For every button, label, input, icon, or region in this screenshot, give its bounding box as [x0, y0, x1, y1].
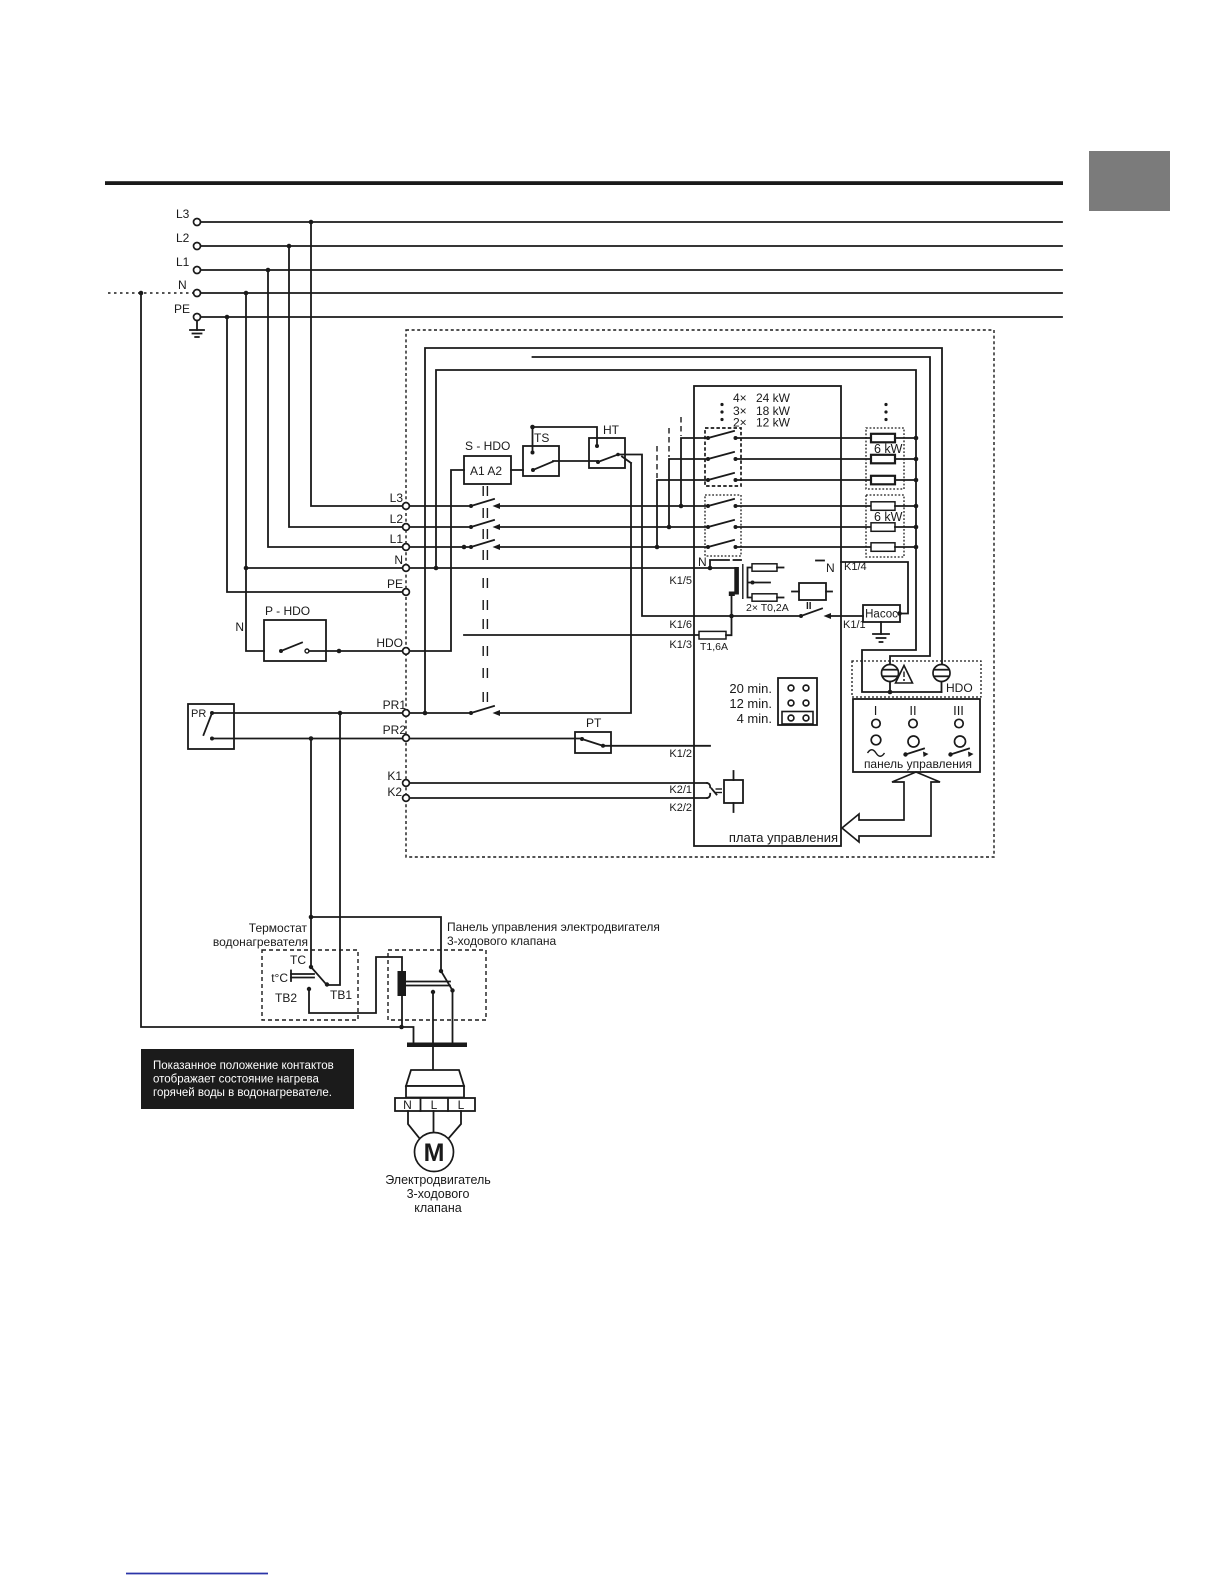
contactor S-HDO linkage dashes: [483, 486, 487, 702]
node N supply terminal: [178, 278, 201, 297]
wire group1 feed from L3: [681, 417, 708, 506]
motor M: [415, 1133, 454, 1172]
svg-text:K1/5: K1/5: [669, 575, 692, 587]
wire L2 supply line: [201, 244, 1062, 249]
svg-text:Насос: Насос: [865, 609, 898, 621]
resistor R3 heater: [871, 476, 895, 485]
node L2 supply terminal: [176, 231, 201, 250]
label motor title: [385, 1173, 491, 1215]
relay contact K 1a: [706, 431, 738, 440]
wire PE drop to inner PE: [227, 317, 402, 592]
wire contact2b to heater R5: [736, 526, 872, 528]
node PE inner terminal: [387, 577, 409, 595]
svg-text:I: I: [874, 703, 878, 718]
resistor R1 heater: [871, 434, 895, 443]
wire contact1c to heater R3: [736, 479, 872, 481]
wire terminals to motor: [408, 1111, 461, 1139]
wire TS top link to HT top: [530, 425, 597, 446]
wire A2 to TS: [511, 469, 523, 471]
contactor S-HDO pole 2: [469, 520, 500, 530]
sensor t°C: [271, 971, 314, 986]
node HDO inner terminal: [376, 636, 409, 654]
valve gearbox housing: [406, 1070, 464, 1098]
relay K2 contact and equals: [712, 789, 723, 795]
thermostat dashed box: [262, 950, 358, 1020]
node N bracket at K1/5: [698, 555, 741, 570]
svg-text:K2/2: K2/2: [669, 802, 692, 814]
panel lamp III: [955, 719, 963, 727]
svg-text:3-ходового: 3-ходового: [407, 1187, 470, 1201]
node PE supply terminal: [174, 302, 201, 321]
node L3 inner terminal: [390, 491, 410, 509]
svg-text:12 kW: 12 kW: [756, 416, 791, 430]
wire contact2c to heater R6: [736, 546, 872, 548]
relay contact K 2c: [706, 540, 738, 549]
heater group 2 dotted box 6 kW: [866, 495, 904, 557]
node TB2 wire: [275, 957, 402, 1013]
svg-text:TB1: TB1: [330, 988, 352, 1002]
svg-text:водонагревателя: водонагревателя: [213, 935, 308, 949]
motor panel dashed box: [388, 950, 486, 1020]
wire HDO to A1: [410, 470, 465, 651]
wire loop A PR1 to HDO lamp: [423, 348, 942, 715]
wire PR2 riser to TC: [309, 739, 314, 968]
relay contact group 2 box: [705, 495, 741, 556]
svg-text:T1,6A: T1,6A: [700, 641, 728, 653]
wire L1 supply line: [201, 268, 1062, 273]
relay K2 coil box: [724, 771, 743, 812]
relay contact K 2a: [706, 499, 738, 508]
svg-text:Электродвигатель: Электродвигатель: [385, 1173, 491, 1187]
block arrow board to panel: [842, 772, 940, 842]
wire heater returns to N loop: [895, 436, 918, 550]
node L1 supply terminal: [176, 255, 201, 274]
resistor R6 heater: [871, 543, 895, 552]
fuse F2 T0,2A: [746, 594, 789, 614]
motor panel switch: [431, 969, 455, 994]
switch PR1 contact: [469, 706, 500, 716]
switch II pump contact: [799, 601, 866, 631]
svg-text:L3: L3: [390, 491, 404, 505]
contactor S-HDO pole 1: [469, 499, 500, 509]
receiver PR box: [188, 704, 234, 749]
svg-text:A1 A2: A1 A2: [470, 464, 502, 478]
wire PT to K1/2: [605, 746, 710, 760]
svg-text:3-ходового клапана: 3-ходового клапана: [447, 934, 557, 948]
outer dashed enclosure box: [406, 330, 994, 857]
wire contact2a to heater R4: [736, 505, 872, 507]
svg-text:отображает состояние нагрева: отображает состояние нагрева: [153, 1074, 319, 1086]
svg-text:M: M: [424, 1139, 445, 1167]
contactor coil S-HDO: [464, 439, 511, 484]
panel switch II: [903, 736, 928, 757]
wire group1 feed from L2: [669, 428, 708, 527]
wire N row to board: [410, 566, 711, 571]
svg-text:PR1: PR1: [383, 698, 407, 712]
wire L2 row: [410, 525, 709, 530]
svg-text:N: N: [403, 1098, 412, 1112]
wire group1 feed from L1: [657, 446, 708, 547]
wire L3 row: [410, 504, 709, 509]
wire L3 drop to inner L3: [311, 222, 402, 506]
lamp HDO indicator: [933, 665, 973, 696]
node K1 terminal: [387, 769, 409, 786]
wire L3 supply line: [201, 220, 1062, 225]
wire N left drop to motor area: [141, 293, 402, 1027]
panel lamp I: [872, 719, 880, 727]
node L2 inner terminal: [390, 512, 410, 530]
svg-text:N: N: [826, 561, 835, 575]
svg-text:PT: PT: [586, 716, 602, 730]
svg-text:K1/6: K1/6: [669, 619, 692, 631]
ground symbol at PE: [190, 321, 204, 338]
svg-text:L: L: [431, 1098, 438, 1112]
wire TS to HT lower: [553, 460, 598, 462]
svg-text:панель управления: панель управления: [864, 757, 972, 771]
svg-text:PR: PR: [191, 708, 206, 720]
wire HT output to K1/6: [618, 455, 694, 617]
node L3 supply terminal: [176, 207, 201, 226]
svg-text:TC: TC: [290, 953, 306, 967]
dots ellipsis right: [884, 403, 887, 421]
wire L1 row: [410, 545, 709, 550]
heater group 1 dotted box 6 kW: [866, 428, 904, 489]
svg-text:N: N: [698, 555, 707, 569]
switch PT: [575, 716, 611, 753]
svg-text:клапана: клапана: [414, 1201, 461, 1215]
contactor S-HDO pole 3: [469, 540, 500, 550]
suppressor box on relay: [792, 583, 832, 600]
label heater power options: [720, 391, 790, 430]
svg-text:2× T0,2A: 2× T0,2A: [746, 602, 789, 614]
wire N drop to inner N and P-HDO: [244, 293, 402, 651]
panel knob I: [868, 735, 885, 756]
svg-text:S - HDO: S - HDO: [465, 439, 510, 453]
node TB1: [325, 982, 353, 1002]
wire L2 drop to inner L2: [289, 246, 402, 527]
note box contact position: [141, 1049, 354, 1109]
lamp warning indicator: [882, 665, 899, 682]
label thermostat title: [213, 921, 308, 949]
wire K1 row to relay: [410, 783, 711, 796]
svg-text:t°C: t°C: [271, 971, 288, 985]
svg-text:HDO: HDO: [946, 681, 973, 695]
wire loop B TS to warning lamp: [533, 357, 931, 665]
svg-text:плата управления: плата управления: [729, 830, 838, 845]
svg-text:PE: PE: [174, 302, 190, 316]
svg-text:L3: L3: [176, 207, 190, 221]
svg-text:6 kW: 6 kW: [874, 510, 903, 524]
wire PR1 row: [212, 711, 471, 716]
svg-text:L2: L2: [176, 231, 190, 245]
svg-text:PR2: PR2: [383, 723, 407, 737]
svg-text:K1/3: K1/3: [669, 639, 692, 651]
svg-text:горячей воды в водонагревателе: горячей воды в водонагревателе.: [153, 1087, 332, 1099]
warning triangle: [896, 666, 913, 684]
svg-text:L1: L1: [390, 532, 404, 546]
svg-text:4 min.: 4 min.: [737, 711, 772, 726]
wire contact1b to heater R2: [736, 458, 872, 460]
relay contact K 2b: [706, 520, 738, 529]
svg-text:12 min.: 12 min.: [729, 696, 772, 711]
svg-text:K1: K1: [387, 769, 402, 783]
svg-text:II: II: [806, 601, 812, 612]
switch TS: [523, 427, 559, 476]
wire K1/6 row: [669, 614, 801, 631]
svg-text:K2/1: K2/1: [669, 784, 692, 796]
svg-text:L1: L1: [176, 255, 190, 269]
wire L1 drop to inner L1: [268, 270, 402, 547]
svg-text:N: N: [178, 278, 187, 292]
fuse holder bars 2xT0,2A: [710, 564, 770, 616]
svg-text:K1/2: K1/2: [669, 748, 692, 760]
indicator lamps dotted box: [852, 661, 981, 697]
switch HT: [589, 423, 625, 468]
wire PE supply line: [201, 315, 1062, 320]
svg-text:P - HDO: P - HDO: [265, 604, 310, 618]
svg-text:Термостат: Термостат: [249, 921, 308, 935]
wire N dotted extension: [108, 291, 193, 296]
relay contact group 1 box: [705, 428, 741, 486]
wire K2 row to relay: [410, 794, 711, 814]
node N inner terminal: [394, 553, 409, 571]
svg-text:Показанное положение контактов: Показанное положение контактов: [153, 1060, 334, 1072]
fuse F1 T0,2A: [752, 564, 784, 571]
svg-text:L2: L2: [390, 512, 404, 526]
resistor R5 heater: [871, 523, 895, 532]
label motor panel title: [447, 920, 660, 948]
panel switch III: [948, 736, 973, 757]
wire PR2 row to PT: [212, 736, 582, 741]
svg-text:TB2: TB2: [275, 991, 297, 1005]
capacitor block: [398, 971, 451, 996]
svg-text:III: III: [953, 703, 964, 718]
svg-text:L: L: [458, 1098, 465, 1112]
valve mounting bar: [407, 1043, 467, 1048]
control board box плата управления: [694, 386, 841, 846]
wire K1/4 N to pump: [816, 561, 908, 616]
svg-text:II: II: [909, 703, 916, 718]
wire P-HDO to HDO terminal: [309, 649, 402, 654]
node K2 terminal: [387, 785, 409, 801]
wire switch outputs to valve: [433, 991, 453, 1071]
wire contact1a to heater R1: [736, 437, 872, 439]
relay contact K 1b: [706, 452, 738, 461]
wire N to valve bar: [399, 996, 413, 1043]
wire HT output to PR1 contact: [500, 457, 632, 714]
pump box Насос: [863, 605, 900, 622]
relay contact K 1c: [706, 473, 738, 482]
svg-text:HT: HT: [603, 423, 620, 437]
resistor R2 heater: [871, 455, 895, 464]
control panel box панель управления: [853, 699, 980, 772]
svg-text:N: N: [235, 620, 244, 634]
svg-text:Панель управления электродвига: Панель управления электродвигателя: [447, 920, 660, 934]
wire K1/3 row with fuse T1,6A: [464, 616, 732, 653]
wire N supply line: [201, 291, 1062, 296]
svg-text:N: N: [394, 553, 403, 567]
panel lamp II: [909, 719, 917, 727]
node PR2 terminal: [383, 723, 410, 741]
svg-text:20 min.: 20 min.: [729, 681, 772, 696]
svg-text:HDO: HDO: [376, 636, 403, 650]
terminal strip N L L: [395, 1098, 475, 1112]
svg-text:PE: PE: [387, 577, 403, 591]
svg-text:24 kW: 24 kW: [756, 391, 791, 405]
thermostat switch TC: [290, 953, 326, 984]
node PR1 terminal: [383, 698, 410, 716]
wire PR1 riser to TB1: [328, 713, 340, 985]
svg-text:TS: TS: [534, 431, 549, 445]
receiver P-HDO box: [235, 604, 326, 661]
svg-text:4×: 4×: [733, 391, 747, 405]
wire loop C N return line: [436, 370, 942, 694]
label timing options: [729, 681, 772, 726]
resistor R4 heater: [871, 502, 895, 511]
node L1 inner terminal: [390, 532, 410, 550]
jumper block timing selector: [778, 678, 817, 725]
svg-text:K2: K2: [387, 785, 402, 799]
ground symbol under pump: [873, 622, 889, 642]
wire to motor panel switch: [311, 917, 441, 971]
